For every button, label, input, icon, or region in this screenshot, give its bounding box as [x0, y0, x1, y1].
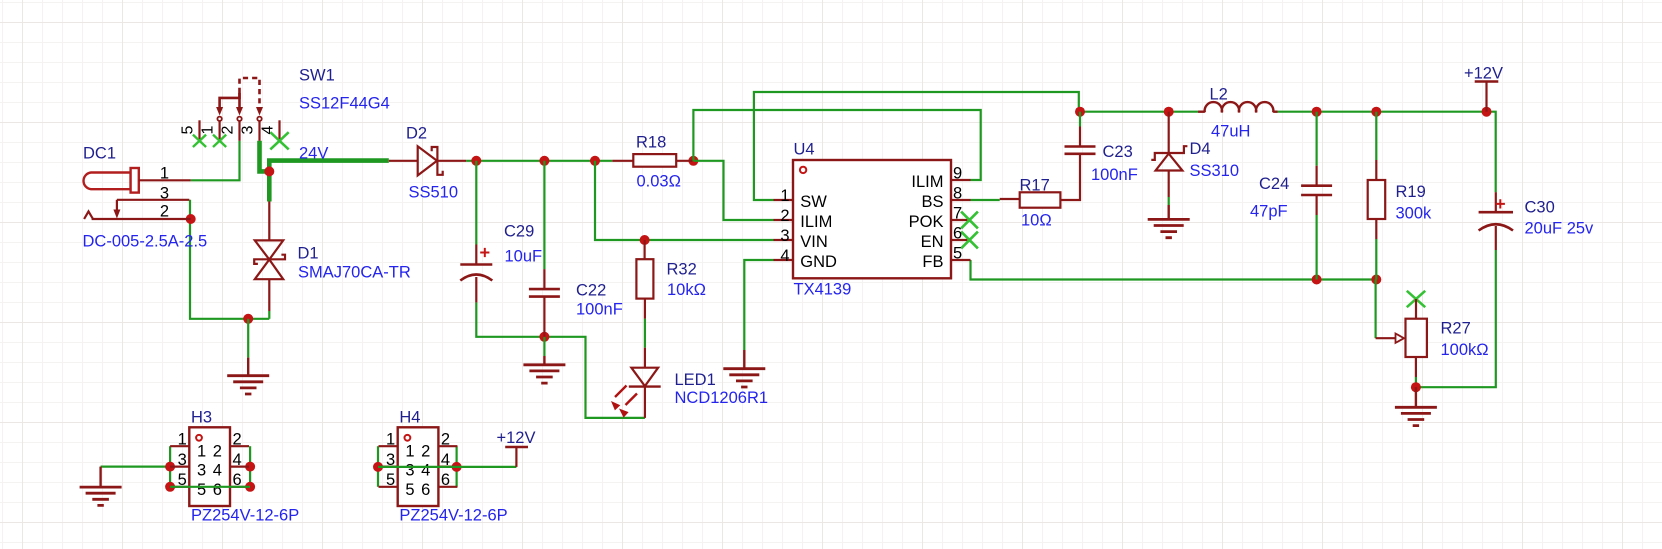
wire bottom net C29 C22 to LED cathode	[476, 302, 645, 418]
wire R32 top lead	[643, 240, 645, 259]
wire R27 bottom to ground node	[1415, 377, 1417, 387]
H3 pin stubs	[170, 445, 189, 447]
svg-text:L2: L2	[1210, 86, 1228, 104]
wire D2 cathode to R18 left	[466, 160, 612, 162]
svg-text:POK: POK	[909, 213, 944, 231]
svg-text:7: 7	[953, 205, 962, 223]
SW1 no-connect X pin 5	[193, 135, 206, 147]
wire top rail L2 to +12V and C30	[1277, 112, 1496, 193]
wire H3 ground to pin3	[101, 466, 171, 468]
svg-text:SW: SW	[800, 193, 827, 211]
svg-text:3: 3	[160, 185, 169, 203]
node R27 bottom junction	[1411, 382, 1421, 392]
wire R19 top lead	[1375, 112, 1377, 160]
wire D1 bottom lead	[268, 311, 270, 319]
wire VIN drop and run to U4 pin3	[595, 161, 774, 240]
svg-text:GND: GND	[800, 253, 837, 271]
svg-text:4: 4	[233, 451, 242, 469]
svg-text:2: 2	[233, 431, 242, 449]
SW1 actuator solid bracket with arrows on pins 1 and 2	[220, 93, 240, 107]
svg-text:R32: R32	[667, 261, 697, 279]
node R32 top junction	[640, 235, 650, 245]
diode D2 SS510	[389, 146, 466, 175]
wire DC1 pin1 to SW1 pin2	[191, 141, 240, 181]
svg-text:24V: 24V	[299, 145, 328, 163]
DC1 arrow pin3 to pin2	[116, 200, 118, 211]
svg-text:3: 3	[178, 451, 187, 469]
wire U4 pin5 FB to feedback net	[971, 260, 1377, 280]
resistor R32 10k	[636, 259, 653, 298]
wire U4 pin1 SW up over the IC to C23 top rail	[754, 92, 1079, 200]
LED1 NCD1206R1	[644, 348, 646, 368]
svg-text:+12V: +12V	[1464, 65, 1503, 83]
svg-text:+12V: +12V	[497, 429, 536, 447]
svg-text:ILIM: ILIM	[800, 213, 832, 231]
svg-text:SS510: SS510	[409, 184, 459, 202]
svg-text:PZ254V-12-6P: PZ254V-12-6P	[191, 507, 299, 525]
R27 wiper arrow	[1376, 337, 1395, 339]
SW1 no-connect X pin 1	[213, 135, 226, 147]
svg-text:U4: U4	[794, 141, 815, 159]
svg-text:C24: C24	[1259, 175, 1289, 193]
U4 left pin stubs 1-4	[774, 199, 794, 201]
svg-text:FB: FB	[922, 253, 943, 271]
ground at C22	[543, 356, 545, 365]
svg-text:2: 2	[421, 443, 430, 461]
wire DC1 pin3/pin2 down to D1 bottom net	[190, 200, 269, 319]
R27 no-connect X on top pin	[1407, 291, 1425, 307]
U4 right pin stubs 9-5	[951, 179, 971, 181]
header H3 body	[189, 427, 230, 506]
wire R27 wiper drop	[1374, 280, 1376, 339]
node R19 bottom junction	[1371, 275, 1381, 285]
svg-text:6: 6	[953, 225, 962, 243]
svg-text:2: 2	[780, 207, 789, 225]
svg-text:C30: C30	[1525, 199, 1555, 217]
svg-text:47uH: 47uH	[1211, 123, 1250, 141]
ground at D1	[247, 358, 249, 376]
node H4 pin4 junction	[452, 462, 462, 472]
svg-text:C22: C22	[576, 282, 606, 300]
svg-text:D1: D1	[298, 245, 319, 263]
svg-text:5: 5	[405, 481, 414, 499]
wire R19 bottom	[1375, 239, 1377, 280]
node C23 top junction	[1075, 107, 1085, 117]
H4 pin stubs	[379, 445, 398, 447]
svg-text:PZ254V-12-6P: PZ254V-12-6P	[399, 507, 507, 525]
header H4 body	[398, 427, 439, 506]
svg-text:2: 2	[441, 431, 450, 449]
U4 no-connect X pin 6 EN	[961, 232, 978, 249]
wire SW1 pin3 leg (thick)	[260, 141, 270, 172]
wire R18 right to U4 pin9 ILIM over the top	[693, 110, 980, 180]
svg-text:8: 8	[953, 185, 962, 203]
svg-text:6: 6	[421, 481, 430, 499]
svg-text:4: 4	[421, 461, 430, 479]
wire C22 ground stem	[543, 337, 545, 356]
node H3 pin5 junction	[165, 482, 175, 492]
node C24 bottom junction	[1312, 275, 1322, 285]
resistor R19 300k	[1375, 160, 1377, 180]
DC1 zigzag on pin 2	[84, 211, 93, 219]
SW1 actuator dashed alternate position to pin 3	[240, 78, 260, 105]
svg-text:9: 9	[953, 165, 962, 183]
wire C24 bottom	[1315, 215, 1317, 280]
svg-text:4: 4	[213, 461, 222, 479]
node H3 pin4 junction	[245, 462, 255, 472]
svg-text:2: 2	[213, 443, 222, 461]
svg-text:10uF: 10uF	[505, 248, 543, 266]
svg-text:2: 2	[160, 203, 169, 221]
wire U4 pin4 GND down to ground	[744, 260, 773, 350]
ground at H3	[99, 467, 101, 488]
svg-text:0.03Ω: 0.03Ω	[637, 173, 681, 191]
svg-text:NCD1206R1: NCD1206R1	[675, 389, 769, 407]
svg-text:1: 1	[405, 443, 414, 461]
svg-text:R17: R17	[1020, 177, 1050, 195]
H4 pin1 indicator circle	[405, 435, 411, 441]
svg-text:DC1: DC1	[83, 145, 116, 163]
wire C29 branch down	[475, 161, 477, 245]
wire 24V thick run	[269, 161, 389, 173]
wire C24 branch down	[1315, 112, 1317, 166]
wire H4 right loop	[456, 446, 458, 487]
svg-text:H4: H4	[399, 409, 420, 427]
svg-text:DC-005-2.5A-2.5: DC-005-2.5A-2.5	[83, 233, 208, 251]
wire R18 right junction to U4 pin2 ILIM	[693, 161, 773, 220]
node C24 top junction	[1312, 107, 1322, 117]
capacitor C23 100nF	[1079, 127, 1081, 147]
capacitor C24 47pF	[1315, 166, 1317, 186]
svg-text:R18: R18	[636, 134, 666, 152]
pin 2 of DC1	[92, 218, 191, 220]
svg-text:R19: R19	[1396, 183, 1426, 201]
svg-text:BS: BS	[921, 193, 943, 211]
svg-text:4: 4	[780, 247, 789, 265]
svg-text:100nF: 100nF	[576, 301, 623, 319]
svg-text:LED1: LED1	[675, 371, 716, 389]
node C22 ground junction	[539, 332, 549, 342]
node 24V junction	[264, 166, 274, 176]
node H4 pin3 junction	[373, 462, 383, 472]
svg-text:1: 1	[197, 443, 206, 461]
svg-text:C29: C29	[504, 223, 534, 241]
TVS diode D1 SMAJ70CA-TR	[254, 202, 285, 312]
wire U4 pin8 BS to R17	[971, 199, 1000, 201]
svg-text:ILIM: ILIM	[911, 173, 943, 191]
svg-text:5: 5	[197, 481, 206, 499]
svg-text:6: 6	[441, 471, 450, 489]
svg-text:1: 1	[386, 431, 395, 449]
svg-text:6: 6	[213, 481, 222, 499]
pin 1 of DC1	[139, 179, 191, 181]
svg-text:5: 5	[180, 125, 197, 134]
switch SW1 pin stubs	[198, 120, 200, 141]
R17 right lead to C23 bottom	[1060, 154, 1080, 200]
node H3 pin3 junction	[165, 462, 175, 472]
node D1 ground junction	[243, 314, 253, 324]
wire H4 cross wire row3-4 to +12V	[378, 466, 516, 468]
diode D4 SS310 schottky	[1151, 112, 1187, 197]
ground at D4	[1167, 205, 1169, 219]
svg-text:C23: C23	[1103, 143, 1133, 161]
svg-text:H3: H3	[191, 409, 212, 427]
svg-text:5: 5	[386, 471, 395, 489]
resistor R17 10ohm	[1000, 198, 1020, 200]
svg-text:D4: D4	[1190, 140, 1211, 158]
svg-text:1: 1	[780, 187, 789, 205]
power flag +12V top right	[1475, 80, 1499, 83]
wire H4 left loop	[377, 446, 379, 487]
svg-text:100nF: 100nF	[1091, 166, 1138, 184]
SW1 contact circles	[217, 117, 221, 121]
svg-text:EN: EN	[921, 233, 944, 251]
svg-text:5: 5	[953, 245, 962, 263]
node VIN branch junction	[590, 156, 600, 166]
svg-text:47pF: 47pF	[1250, 203, 1288, 221]
svg-text:3: 3	[240, 125, 257, 134]
svg-text:20uF 25v: 20uF 25v	[1525, 220, 1595, 238]
node R18 right junction	[688, 156, 698, 166]
svg-text:1: 1	[178, 431, 187, 449]
svg-text:100kΩ: 100kΩ	[1441, 341, 1489, 359]
ground at R27	[1415, 387, 1417, 407]
wire H3 left loop	[169, 446, 171, 487]
wire H3 right loop	[249, 446, 251, 487]
wire R27 ground node to C30 bottom	[1416, 250, 1496, 387]
resistor R18 0.03ohm	[612, 160, 633, 162]
svg-text:1: 1	[200, 125, 217, 134]
svg-text:SW1: SW1	[299, 67, 335, 85]
svg-text:D2: D2	[406, 125, 427, 143]
svg-text:3: 3	[405, 461, 414, 479]
svg-text:300k: 300k	[1396, 205, 1433, 223]
svg-text:1: 1	[160, 165, 169, 183]
svg-text:VIN: VIN	[800, 233, 828, 251]
svg-text:R27: R27	[1441, 320, 1471, 338]
svg-text:SMAJ70CA-TR: SMAJ70CA-TR	[298, 264, 411, 282]
svg-text:SS12F44G4: SS12F44G4	[299, 95, 390, 113]
svg-text:4: 4	[260, 125, 277, 134]
svg-text:TX4139: TX4139	[794, 281, 852, 299]
inductor L2 47uH	[1198, 110, 1205, 112]
wire R32 bottom to LED anode	[644, 319, 646, 348]
SW1 no-connect X pin 4	[270, 132, 288, 149]
U4 no-connect X pin 7 POK	[961, 212, 978, 229]
power flag +12V at H4	[505, 446, 528, 448]
wire D1 ground stem	[247, 319, 249, 358]
pin 3 of DC1	[117, 199, 189, 201]
node DC1 pin2 junction	[186, 214, 196, 224]
wire 24V down to D1	[267, 171, 272, 201]
node R19 top junction	[1371, 107, 1381, 117]
capacitor C29 polarized 10uF	[475, 245, 477, 265]
node H3 pin6 junction	[245, 482, 255, 492]
svg-text:3: 3	[780, 227, 789, 245]
svg-text:10Ω: 10Ω	[1021, 212, 1052, 230]
H3 pin1 indicator circle	[196, 435, 202, 441]
svg-text:3: 3	[197, 461, 206, 479]
capacitor C22 100nF	[543, 269, 545, 289]
svg-text:10kΩ: 10kΩ	[667, 281, 706, 299]
connector DC1 barrel jack	[84, 168, 139, 193]
wire C22 branch down	[543, 161, 545, 269]
node D4 junction	[1164, 107, 1174, 117]
ground at U4 GND pin	[743, 350, 745, 369]
node D2 output junction	[471, 156, 481, 166]
capacitor C30 polarized 20uF 25v	[1495, 192, 1497, 212]
U4 pin1 indicator circle	[800, 167, 806, 173]
node +12V junction	[1482, 107, 1492, 117]
svg-text:SS310: SS310	[1190, 162, 1240, 180]
wire C23 top lead	[1079, 112, 1081, 127]
op-amp U4 TX4139 IC body	[793, 160, 951, 278]
wire D4 anode green segment	[1168, 197, 1170, 205]
wire H3 cross wire row5-6	[170, 486, 250, 488]
LED1 emission arrows	[615, 386, 627, 398]
svg-text:2: 2	[220, 125, 237, 134]
node C22 branch junction	[539, 156, 549, 166]
wire top rail SW node to L2	[1080, 111, 1198, 113]
